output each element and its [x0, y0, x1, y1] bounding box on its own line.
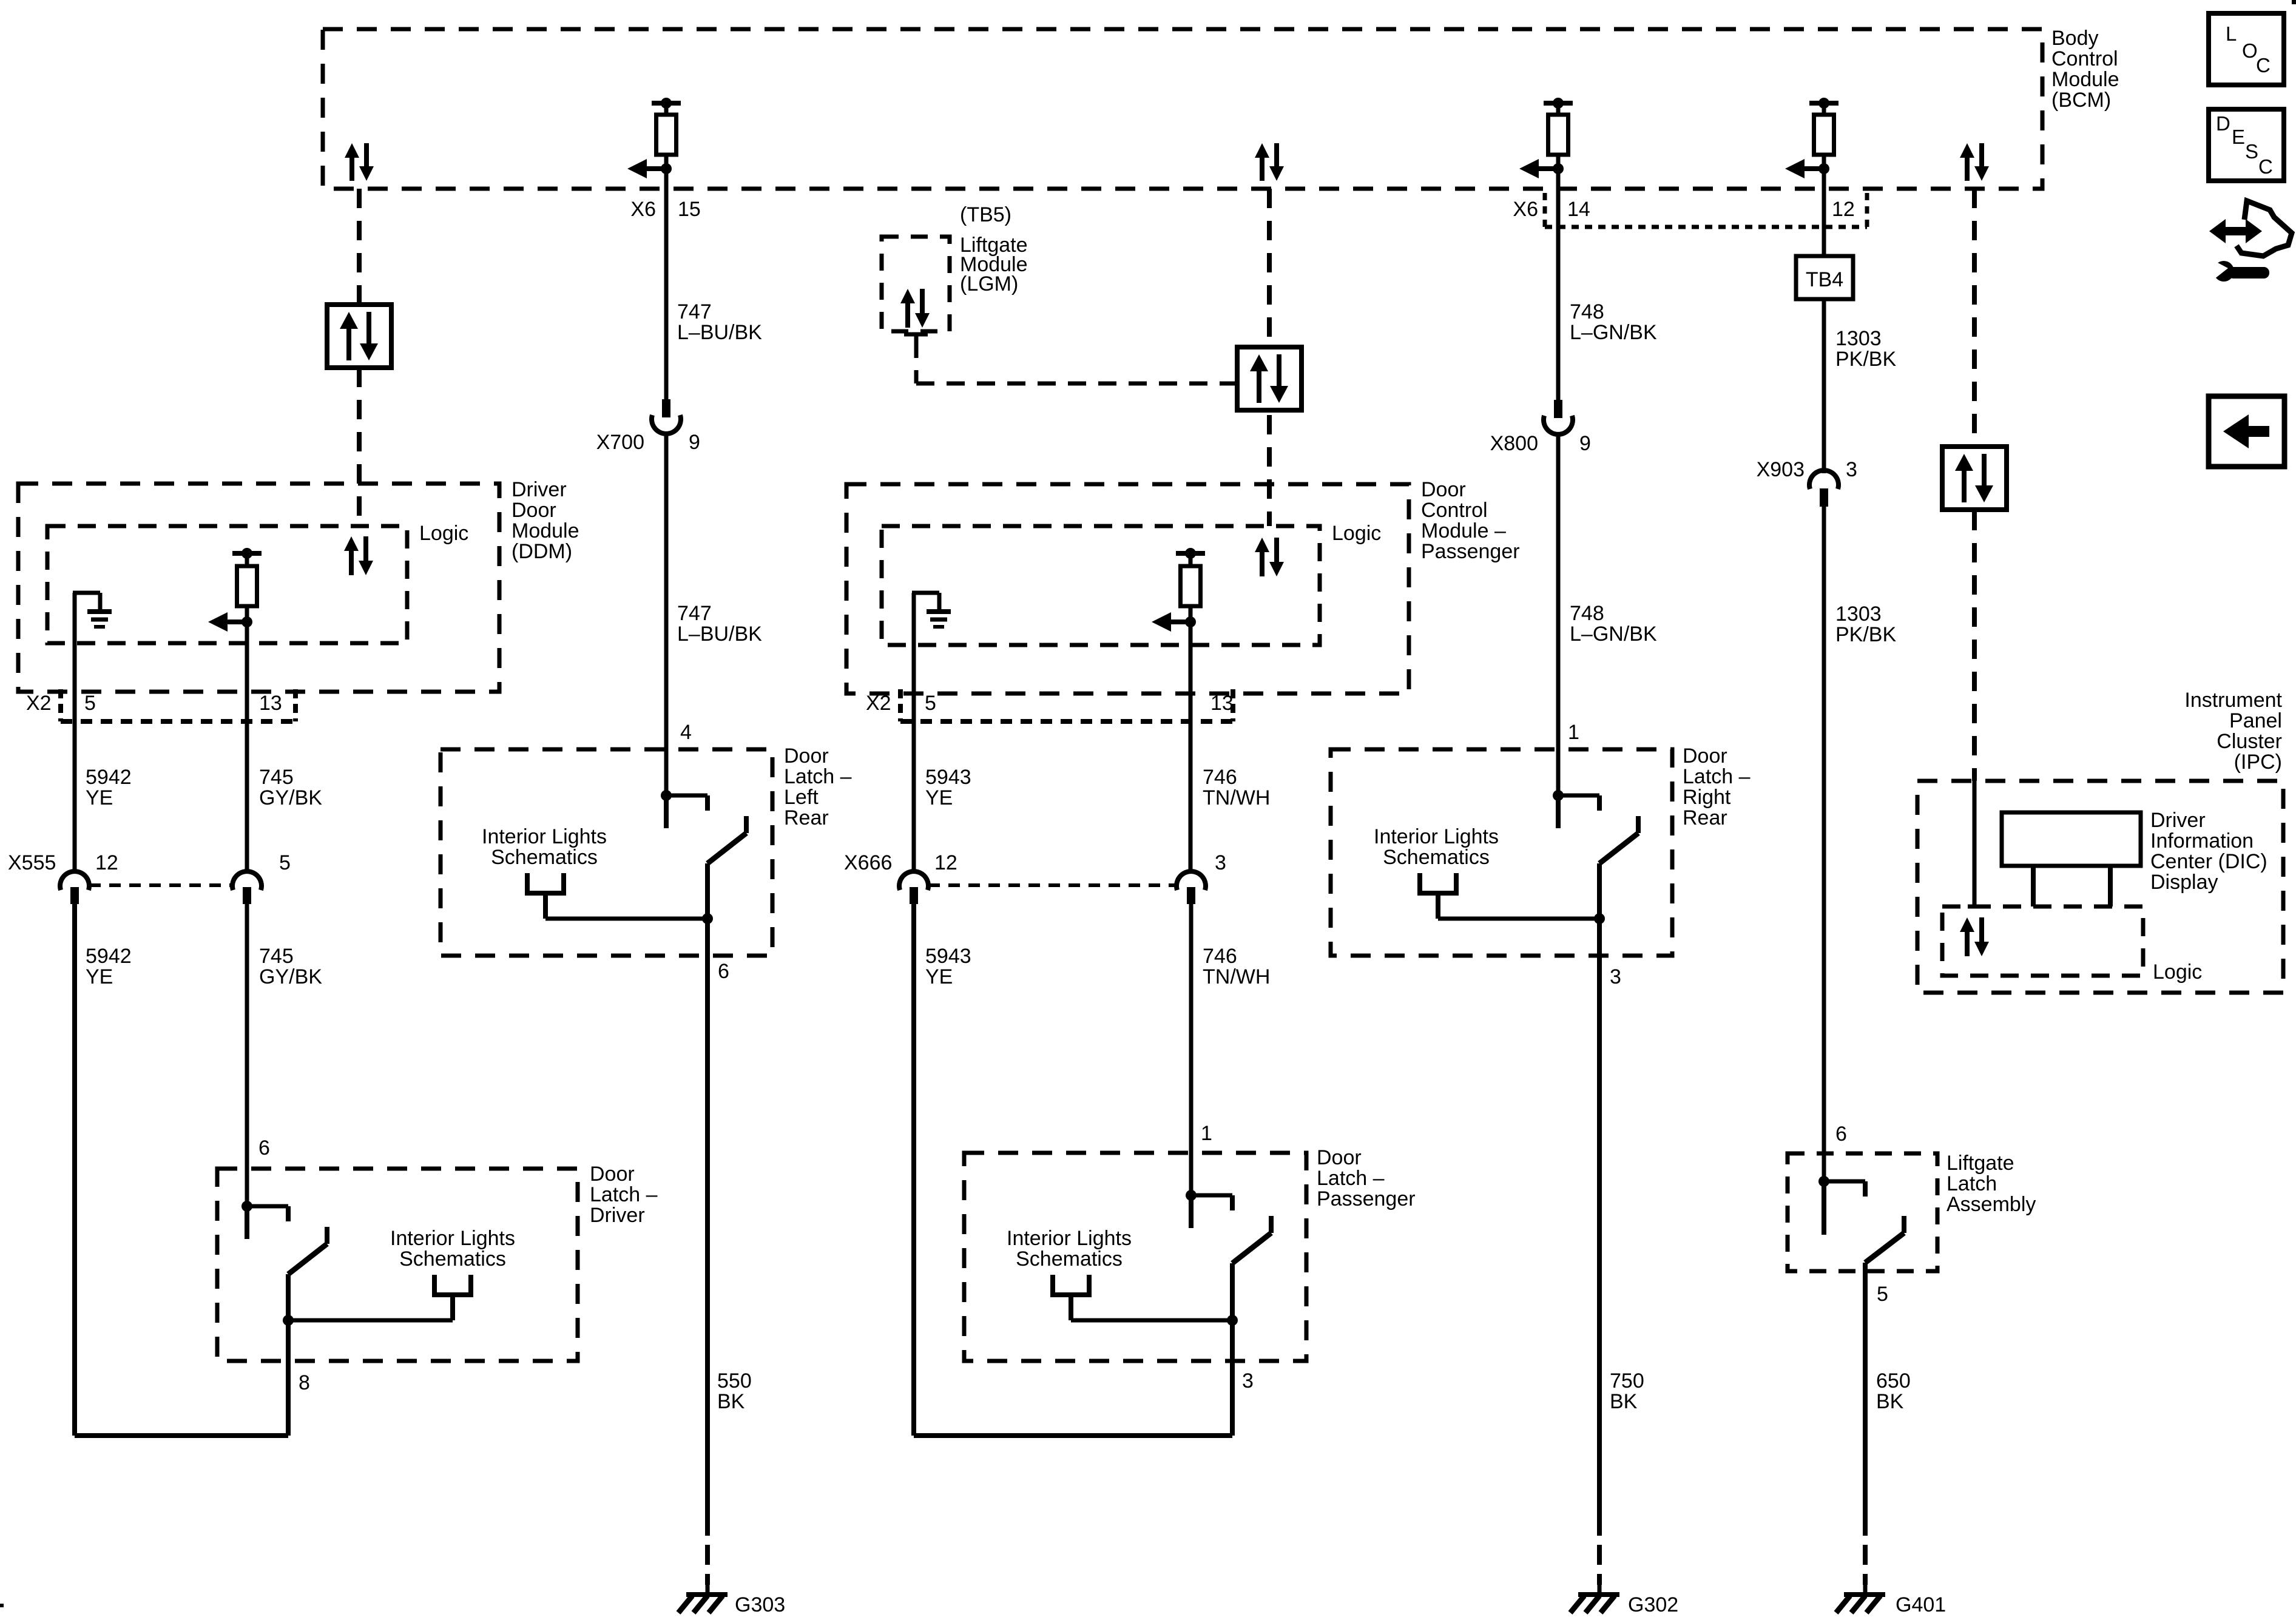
- svg-text:BK: BK: [1610, 1390, 1638, 1413]
- svg-text:X800: X800: [1490, 432, 1538, 455]
- svg-text:X555: X555: [8, 851, 56, 874]
- svg-text:G303: G303: [735, 1593, 785, 1616]
- svg-text:6: 6: [718, 960, 729, 983]
- fixed contact L-stub (liftgate): [1824, 1181, 1865, 1197]
- svg-text:747: 747: [677, 602, 712, 625]
- svg-text:Liftgate: Liftgate: [1947, 1152, 2014, 1175]
- interior lights schematics bracket (right rear): [1417, 873, 1599, 919]
- label Driver Information Center (DIC) Display: [2150, 809, 2267, 894]
- open wire stub below junction: [664, 795, 669, 828]
- junction dot at latch pin feed: [661, 790, 672, 801]
- junction + left arrow at x=3006: [1785, 155, 1829, 178]
- data arrows inside BCM (right, serial data): [1960, 143, 1989, 181]
- icon DESC box: [2209, 109, 2284, 181]
- wire bottom run passenger (pin 3 to 5943): [914, 1433, 1232, 1438]
- wire label 1303 PK/BK (upper): [1835, 327, 1896, 371]
- connector X555 pin 5: [232, 871, 262, 904]
- connector X2 row (DDM): [61, 689, 295, 721]
- wire 5943 YE (X666 to bottom run): [911, 904, 916, 1436]
- wire 747 L-BU/BK (BCM internal to X6 pin 15): [664, 169, 669, 399]
- svg-text:Body: Body: [2051, 27, 2099, 50]
- svg-text:YE: YE: [86, 965, 113, 988]
- svg-text:Rear: Rear: [784, 806, 829, 829]
- connector X555 labels: [8, 851, 291, 874]
- label Liftgate Latch Assembly: [1947, 1152, 2036, 1216]
- switch blade: [1232, 1216, 1271, 1263]
- svg-text:Instrument: Instrument: [2184, 689, 2282, 712]
- svg-text:Door: Door: [784, 744, 829, 768]
- svg-text:X6: X6: [630, 198, 656, 221]
- DCM internal junction + left arrow: [1152, 606, 1196, 632]
- connector X800 pin 9: [1544, 400, 1573, 434]
- fixed contact L-stub: [666, 795, 707, 811]
- svg-text:Schematics: Schematics: [1016, 1247, 1123, 1271]
- svg-text:745: 745: [259, 766, 294, 789]
- svg-text:(TB5): (TB5): [960, 203, 1011, 226]
- connector X6 pin 14 labels: [1513, 198, 1590, 221]
- svg-text:YE: YE: [86, 786, 113, 809]
- data arrows inside DCM logic: [1255, 538, 1284, 576]
- wire label 1303 PK/BK (lower): [1835, 603, 1896, 646]
- svg-text:550: 550: [717, 1369, 752, 1393]
- label Door Latch - Driver: [590, 1163, 658, 1227]
- connector X2 labels (DDM): [26, 692, 282, 715]
- wire label 746 TN/WH (lower): [1203, 945, 1270, 988]
- svg-text:5942: 5942: [86, 945, 132, 968]
- connector X666 pin 3: [1177, 871, 1206, 904]
- connector X2 labels (DCM): [866, 692, 1234, 715]
- wire serial data (BCM to DDM) upper segment: [357, 189, 362, 305]
- svg-text:Assembly: Assembly: [1947, 1193, 2036, 1216]
- svg-text:5: 5: [925, 692, 936, 715]
- logic box (DDM): [47, 526, 407, 643]
- junction dot at latch pin feed: [1186, 1190, 1197, 1201]
- ground symbol inside DDM logic: [73, 593, 112, 627]
- svg-text:1303: 1303: [1835, 327, 1882, 350]
- connector X6 pin 15 labels: [630, 198, 700, 221]
- open wire stub below junction: [1189, 1195, 1194, 1228]
- svg-text:9: 9: [689, 431, 700, 454]
- svg-text:Schematics: Schematics: [399, 1247, 506, 1271]
- connector X700 pin 9: [652, 399, 681, 434]
- wire label 748 L-GN/BK (lower): [1570, 602, 1657, 646]
- svg-text:Passenger: Passenger: [1317, 1187, 1416, 1210]
- svg-text:12: 12: [934, 851, 957, 874]
- label Door Control Module - Passenger: [1421, 478, 1520, 563]
- svg-text:L–GN/BK: L–GN/BK: [1570, 623, 1657, 646]
- svg-text:TB4: TB4: [1806, 268, 1843, 291]
- ground symbol inside DCM logic: [912, 593, 951, 627]
- svg-text:1: 1: [1568, 721, 1579, 744]
- connector X903 labels: [1757, 458, 1857, 481]
- LGM serial data T-stub: [904, 334, 928, 340]
- svg-text:C: C: [2258, 155, 2273, 178]
- svg-text:L: L: [2226, 22, 2237, 45]
- interior lights schematics bracket (driver): [288, 1275, 473, 1320]
- open wire stub below junction (liftgate): [1822, 1181, 1826, 1235]
- svg-text:BK: BK: [1876, 1390, 1904, 1413]
- wire 1303 PK/BK (X903 to liftgate latch): [1822, 507, 1826, 1181]
- label Instrument Panel Cluster (IPC): [2184, 689, 2282, 774]
- label Door Latch - Right Rear: [1683, 744, 1751, 829]
- switch blade: [1599, 816, 1638, 863]
- svg-text:6: 6: [1835, 1122, 1847, 1146]
- svg-text:GY/BK: GY/BK: [259, 965, 322, 988]
- svg-text:C: C: [2256, 54, 2271, 76]
- svg-text:5943: 5943: [925, 766, 971, 789]
- component box: Door Latch - Left Rear: [441, 749, 772, 956]
- svg-text:12: 12: [95, 851, 118, 874]
- junction + left arrow at x=2568: [1519, 155, 1564, 178]
- svg-text:YE: YE: [925, 786, 953, 809]
- data arrows inside BCM (center, serial data): [1255, 143, 1284, 181]
- wire switch output to pin 3 (passenger): [1230, 1263, 1235, 1436]
- wire label 748 L-GN/BK (upper): [1570, 300, 1657, 344]
- svg-text:13: 13: [259, 692, 282, 715]
- wire 745 GY/BK (X555 to door latch driver): [245, 904, 249, 1206]
- ground G303: [678, 1585, 728, 1613]
- wire bottom run driver (pin 8 to 5942): [75, 1433, 288, 1438]
- page corner mark bottom left: [0, 1604, 4, 1607]
- wire serial data (LGM down): [914, 340, 919, 383]
- svg-text:Logic: Logic: [419, 522, 468, 545]
- svg-text:Control: Control: [1421, 499, 1488, 522]
- label Interior Lights Schematics (passenger): [1007, 1227, 1132, 1271]
- svg-text:748: 748: [1570, 602, 1604, 625]
- serial data symbol box (center column): [1237, 347, 1302, 410]
- svg-text:YE: YE: [925, 965, 953, 988]
- svg-text:14: 14: [1567, 198, 1590, 221]
- wire 5943 (DCM ground to X2 pin 5): [912, 593, 916, 872]
- label Body Control Module (BCM): [2051, 27, 2119, 112]
- label Driver Door Module (DDM): [512, 478, 579, 563]
- svg-text:Right: Right: [1683, 786, 1731, 809]
- svg-text:Latch –: Latch –: [1683, 765, 1751, 788]
- junction dot at liftgate latch pin feed: [1818, 1176, 1829, 1187]
- logic box (IPC): [1942, 906, 2143, 976]
- wire 5942 (DDM ground to X2 pin 5): [73, 593, 77, 872]
- svg-text:13: 13: [1210, 692, 1234, 715]
- wire 746 (DCM logic to X2 pin 13): [1189, 622, 1193, 872]
- svg-text:12: 12: [1832, 198, 1855, 221]
- connector X555 dashed row: [89, 883, 232, 887]
- wire serial data (BCM to IPC) upper segment: [1972, 189, 1977, 447]
- label Door Latch - Passenger: [1317, 1146, 1416, 1210]
- fixed contact L-stub: [1558, 795, 1599, 811]
- svg-text:TN/WH: TN/WH: [1203, 786, 1270, 809]
- wire stub to B+ T-bar at x=1098: [652, 98, 681, 116]
- DDM internal resistor for latch signal: [232, 548, 262, 567]
- svg-text:(BCM): (BCM): [2051, 89, 2111, 112]
- svg-text:746: 746: [1203, 766, 1237, 789]
- svg-text:D: D: [2216, 112, 2230, 135]
- svg-text:Left: Left: [784, 786, 819, 809]
- wire label 745 GY/BK (upper): [259, 766, 322, 809]
- svg-text:5943: 5943: [925, 945, 971, 968]
- wire 1303 PK/BK (TB4 to X903): [1822, 299, 1826, 473]
- svg-text:E: E: [2232, 126, 2245, 148]
- svg-text:S: S: [2245, 140, 2258, 163]
- switch blade: [288, 1227, 327, 1274]
- svg-text:Latch: Latch: [1947, 1172, 1997, 1195]
- connector X666 pin 12: [899, 871, 928, 904]
- resistor at x=2568: [1548, 115, 1568, 155]
- svg-text:Logic: Logic: [2153, 960, 2202, 984]
- svg-text:Latch –: Latch –: [1317, 1167, 1385, 1190]
- wire 747 L-BU/BK (X700 to door latch left rear): [664, 432, 669, 795]
- data arrows inside BCM (left, serial data): [345, 143, 374, 181]
- wire serial data (to DCM logic): [1267, 415, 1272, 526]
- svg-text:748: 748: [1570, 300, 1604, 323]
- svg-text:Driver: Driver: [512, 478, 567, 501]
- open wire stub below junction: [245, 1206, 249, 1239]
- svg-text:L–GN/BK: L–GN/BK: [1570, 321, 1657, 344]
- svg-text:G401: G401: [1896, 1593, 1946, 1616]
- wire 748 L-GN/BK (X800 to door latch right rear): [1556, 433, 1561, 795]
- DDM internal junction + left arrow: [208, 606, 252, 632]
- fixed contact L-stub: [247, 1206, 288, 1221]
- wire switch output to pin 5 and down (650 circuit): [1863, 1263, 1868, 1516]
- svg-text:Schematics: Schematics: [491, 846, 598, 869]
- svg-text:Door: Door: [1317, 1146, 1362, 1169]
- label Interior Lights Schematics (driver): [390, 1227, 515, 1271]
- wire label 650 BK: [1876, 1369, 1911, 1413]
- wire 5942 YE (X555 to bottom run): [72, 904, 77, 1436]
- switch blade: [707, 816, 746, 863]
- svg-text:X2: X2: [26, 692, 52, 715]
- wire label 5942 YE (upper): [86, 766, 132, 809]
- junction dot switch to interior lights (driver): [283, 1315, 294, 1326]
- component box: Liftgate Latch Assembly: [1788, 1153, 1937, 1271]
- svg-text:3: 3: [1610, 965, 1621, 988]
- svg-text:Rear: Rear: [1683, 806, 1727, 829]
- svg-text:Interior Lights: Interior Lights: [1374, 825, 1499, 848]
- component box: Door Latch - Driver: [217, 1169, 578, 1361]
- wire switch output to pin 6 and down (550 circuit): [705, 863, 710, 1516]
- svg-text:3: 3: [1846, 458, 1857, 481]
- connector X666 dashed row: [928, 883, 1177, 887]
- svg-text:L–BU/BK: L–BU/BK: [677, 321, 762, 344]
- svg-text:Schematics: Schematics: [1383, 846, 1490, 869]
- component box: Door Latch - Passenger: [964, 1153, 1306, 1361]
- svg-text:Control: Control: [2051, 47, 2118, 70]
- svg-text:Display: Display: [2150, 871, 2218, 894]
- junction dot at latch pin feed: [1553, 790, 1564, 801]
- svg-text:Center (DIC): Center (DIC): [2150, 850, 2267, 873]
- wire 748 L-GN/BK (BCM internal to X6 pin 14): [1556, 169, 1561, 400]
- svg-text:Information: Information: [2150, 829, 2254, 852]
- wire label 747 L-BU/BK (upper): [677, 300, 762, 344]
- resistor at x=3006: [1814, 115, 1834, 155]
- wire stub to B+ T-bar at x=2568: [1544, 98, 1573, 116]
- svg-text:Panel: Panel: [2229, 709, 2282, 732]
- svg-text:Cluster: Cluster: [2217, 730, 2282, 753]
- junction dot switch to interior lights (left rear): [702, 913, 713, 924]
- svg-text:5942: 5942: [86, 766, 132, 789]
- interior lights schematics bracket (left rear): [525, 873, 707, 919]
- wire 1303 PK/BK (BCM internal to TB4): [1822, 169, 1826, 256]
- connector X903 pin 3: [1809, 470, 1838, 507]
- wire 550 BK dashed tail: [705, 1516, 710, 1585]
- wire stub to B+ T-bar at x=3006: [1809, 98, 1838, 116]
- svg-text:X2: X2: [866, 692, 891, 715]
- wire 650 BK dashed tail: [1863, 1516, 1868, 1585]
- page corner mark top right: [2292, 0, 2296, 4]
- svg-text:Driver: Driver: [590, 1204, 645, 1227]
- svg-text:PK/BK: PK/BK: [1835, 348, 1896, 371]
- data arrows inside DDM logic: [344, 536, 373, 575]
- switch blade (liftgate): [1865, 1216, 1904, 1263]
- svg-text:X6: X6: [1513, 198, 1538, 221]
- DCM internal resistor for latch signal: [1176, 548, 1205, 567]
- svg-text:15: 15: [678, 198, 701, 221]
- svg-text:(DDM): (DDM): [512, 540, 572, 563]
- serial data symbol box (left column): [327, 305, 391, 368]
- connector X700 labels: [596, 431, 700, 454]
- connector X666 labels: [844, 851, 1226, 874]
- svg-text:Latch –: Latch –: [590, 1183, 658, 1206]
- wire serial data (BCM to DCM passenger) upper segment: [1267, 189, 1272, 347]
- icon door travel (double arrow + door outline + wrench): [2207, 201, 2292, 282]
- data arrows inside IPC logic: [1960, 917, 1989, 956]
- svg-text:BK: BK: [717, 1390, 745, 1413]
- svg-text:L–BU/BK: L–BU/BK: [677, 623, 762, 646]
- icon back arrow box: [2209, 396, 2284, 467]
- wire label 750 BK: [1610, 1369, 1644, 1413]
- module box: Driver Door Module (DDM): [18, 484, 499, 692]
- wire 746 TN/WH (X666 to door latch passenger): [1189, 904, 1194, 1195]
- svg-text:G302: G302: [1628, 1593, 1678, 1616]
- wire label 5943 YE (upper): [925, 766, 971, 809]
- svg-text:Door: Door: [512, 499, 556, 522]
- DIC display legs: [2033, 866, 2110, 906]
- svg-text:PK/BK: PK/BK: [1835, 623, 1896, 646]
- svg-text:Interior Lights: Interior Lights: [390, 1227, 515, 1250]
- junction dot switch to interior lights (right rear): [1594, 913, 1605, 924]
- serial data symbol box (right column): [1942, 447, 2007, 510]
- svg-text:Door: Door: [1683, 744, 1727, 768]
- svg-text:6: 6: [258, 1136, 270, 1160]
- svg-text:Interior Lights: Interior Lights: [482, 825, 607, 848]
- module box: Instrument Panel Cluster (IPC): [1917, 781, 2283, 993]
- label Interior Lights Schematics (left rear): [482, 825, 607, 869]
- wire label 747 L-BU/BK (lower): [677, 602, 762, 646]
- wire 750 BK dashed tail: [1597, 1516, 1602, 1585]
- wire serial data (to IPC): [1972, 511, 1977, 781]
- wire switch output to pin 3 and down (750 circuit): [1597, 863, 1602, 1516]
- logic box (DCM passenger): [882, 526, 1320, 645]
- junction dot at latch pin feed: [241, 1201, 252, 1212]
- connector X800 labels: [1490, 432, 1591, 455]
- open wire stub below junction: [1556, 795, 1561, 828]
- svg-text:5: 5: [1877, 1283, 1888, 1306]
- svg-text:746: 746: [1203, 945, 1237, 968]
- module box: Liftgate Module (LGM) (TB5): [882, 237, 950, 331]
- wire 745 (DDM logic to X2 pin 13): [245, 622, 249, 872]
- svg-text:5: 5: [84, 692, 96, 715]
- module box: Door Control Module - Passenger: [846, 484, 1409, 694]
- svg-text:Module: Module: [512, 519, 579, 542]
- svg-text:Module –: Module –: [1421, 519, 1506, 542]
- svg-text:Logic: Logic: [1332, 522, 1381, 545]
- svg-text:Interior Lights: Interior Lights: [1007, 1227, 1132, 1250]
- svg-text:X700: X700: [596, 431, 644, 454]
- svg-text:4: 4: [680, 721, 692, 744]
- fixed contact L-stub: [1191, 1195, 1232, 1210]
- svg-text:Passenger: Passenger: [1421, 540, 1520, 563]
- svg-text:745: 745: [259, 945, 294, 968]
- svg-text:8: 8: [299, 1371, 310, 1394]
- svg-text:(IPC): (IPC): [2234, 751, 2282, 774]
- svg-text:(LGM): (LGM): [960, 272, 1018, 295]
- svg-text:Door: Door: [590, 1163, 635, 1186]
- wire serial data (LGM to center column): [916, 382, 1237, 386]
- terminal block TB4: [1796, 256, 1853, 299]
- module box: Body Control Module (BCM): [323, 29, 2042, 189]
- svg-text:O: O: [2242, 39, 2258, 62]
- junction + left arrow at x=1098: [627, 155, 672, 178]
- svg-text:5: 5: [279, 851, 291, 874]
- svg-text:Latch –: Latch –: [784, 765, 852, 788]
- connector X2 row (DCM): [900, 689, 1233, 721]
- wire label 745 GY/BK (lower): [259, 945, 322, 988]
- connector X6 pins 14-12 dotted bracket: [1545, 193, 1867, 227]
- connector X555 pin 12: [60, 871, 89, 904]
- wire label 550 BK: [717, 1369, 752, 1413]
- ground G302: [1570, 1585, 1619, 1613]
- interior lights schematics bracket (passenger): [1050, 1275, 1232, 1320]
- svg-text:TN/WH: TN/WH: [1203, 965, 1270, 988]
- wire label 5943 YE (lower): [925, 945, 971, 988]
- label Door Latch - Left Rear: [784, 744, 852, 829]
- resistor at x=1098: [657, 115, 677, 155]
- svg-text:X903: X903: [1757, 458, 1805, 481]
- svg-text:X666: X666: [844, 851, 892, 874]
- svg-text:747: 747: [677, 300, 712, 323]
- wire serial data (to DDM logic): [357, 368, 362, 526]
- data arrows inside LGM: [900, 289, 930, 328]
- svg-text:750: 750: [1610, 1369, 1644, 1393]
- svg-text:GY/BK: GY/BK: [259, 786, 322, 809]
- label Liftgate Module (LGM): [960, 234, 1028, 295]
- svg-text:650: 650: [1876, 1369, 1911, 1393]
- svg-text:1: 1: [1201, 1122, 1212, 1145]
- svg-text:Driver: Driver: [2150, 809, 2206, 832]
- svg-text:Module: Module: [2051, 68, 2119, 91]
- DIC display rectangle: [2002, 812, 2141, 866]
- wire switch output to pin 8 (driver): [286, 1274, 291, 1436]
- wire label 5942 YE (lower): [86, 945, 132, 988]
- label Interior Lights Schematics (right rear): [1374, 825, 1499, 869]
- wire label 746 TN/WH (upper): [1203, 766, 1270, 809]
- component box: Door Latch - Right Rear: [1331, 749, 1672, 956]
- svg-text:3: 3: [1242, 1369, 1254, 1393]
- svg-text:Door: Door: [1421, 478, 1466, 501]
- junction dot switch to interior lights (passenger): [1227, 1315, 1238, 1326]
- svg-text:9: 9: [1579, 432, 1591, 455]
- svg-text:3: 3: [1215, 851, 1226, 874]
- svg-text:1303: 1303: [1835, 603, 1882, 626]
- ground G401: [1836, 1585, 1885, 1613]
- icon LOC box: [2209, 13, 2284, 85]
- wire serial data inside IPC with T-bar: [1968, 781, 1991, 906]
